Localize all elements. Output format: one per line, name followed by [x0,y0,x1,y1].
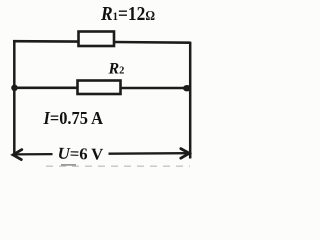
arrow left of U dimension [13,150,22,160]
wire middle right segment [121,87,189,90]
svg-text:I=0.75 A: I=0.75 A [43,108,103,128]
wire top left segment [13,40,79,43]
svg-text:U=6 V: U=6 V [57,143,103,163]
node left junction [11,85,18,92]
node right junction [183,85,191,91]
resistor R2 [78,81,121,95]
wire top right segment [114,41,191,44]
wire left vertical [13,41,16,155]
wire voltage dimension line left [14,153,53,156]
faint scan artifact smudge under equals sign [61,164,76,166]
wire middle left segment [14,87,78,90]
svg-text:R1=12Ω: R1=12Ω [100,4,155,25]
wire voltage dimension line right [109,152,189,155]
faint scan artifact dashes along bottom edge [46,165,190,167]
wire right vertical [189,42,192,159]
resistor R1 [79,32,115,47]
arrow right of U dimension [181,149,190,159]
